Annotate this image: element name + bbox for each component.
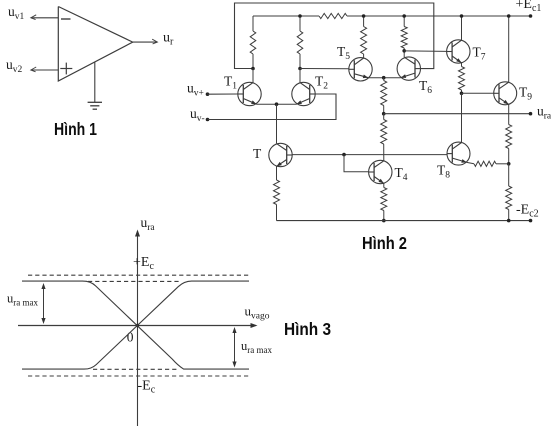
rail dot at R4 (362, 14, 366, 18)
terminal dot uv- (206, 118, 210, 122)
junction dot ura node (382, 112, 386, 116)
rail dot at T7 collector (460, 14, 464, 18)
transistor T8 (447, 142, 470, 165)
wire T2 collector (299, 69, 301, 83)
transistor T current source (269, 143, 292, 166)
+Ec1 rail wire left part (253, 15, 319, 17)
resistor R13 T8 emitter horizontal (467, 162, 474, 163)
wire T9 base (462, 92, 494, 94)
resistor R7 emitters node down to ura node (383, 78, 385, 81)
op-amp U1 triangle (Hinh 1) (58, 7, 132, 82)
curve falling saturating (inverting characteristic) (22, 281, 249, 369)
wire T5 T6 emitters join (368, 77, 400, 79)
transistor T1 (238, 82, 261, 105)
wire T1 collector (252, 69, 254, 83)
rail dot at R5 (402, 14, 406, 18)
terminal dot ura (529, 112, 533, 116)
graph x axis u_vago (18, 325, 256, 327)
rail dot T9 emitter chain (507, 219, 511, 223)
transistor T6 (397, 57, 420, 80)
dashed segment at -saturation between shoulders (93, 368, 179, 370)
wire stub to T4 base (344, 155, 368, 172)
wire T1 T2 emitters join (257, 103, 297, 105)
resistor R6 T7 emitter chain (461, 63, 463, 67)
resistor R1 chain from rail to T1 collector (252, 16, 254, 31)
terminal dot -Ec2 (529, 219, 533, 223)
resistor R9 T emitter to rail (276, 166, 278, 180)
dashed line +Ec level (28, 274, 251, 276)
feedback wire from T1 collector node over top to T6 base (235, 3, 434, 69)
resistor R4 chain from rail to T5 collector (363, 16, 365, 27)
svg-text:+Ec1: +Ec1 (516, 0, 542, 14)
wire input uv2 (31, 69, 58, 71)
junction dot emitters T5 T6 (382, 76, 386, 80)
svg-text:Hình 2: Hình 2 (362, 233, 407, 253)
transistor T7 (447, 40, 470, 63)
svg-text:T: T (253, 146, 262, 161)
rail dot at R2 (298, 14, 302, 18)
wire output ura (384, 113, 531, 115)
node dot T1 collector (251, 67, 255, 71)
resistor R12 down to -Ec2 rail (508, 164, 510, 186)
transistor T9 (494, 82, 517, 105)
junction dot emitters T1 T2 (275, 102, 279, 106)
input arrow uv1 (31, 15, 36, 20)
terminal dot +Ec1 (529, 14, 533, 18)
wire T9 collector to rail (508, 16, 510, 82)
junction dot on T base line (342, 153, 346, 157)
wire input uv+ (208, 93, 238, 95)
transistor T4 (369, 160, 392, 183)
wire input uv- to T2 base (208, 94, 337, 120)
graph y axis u_ra (137, 232, 139, 427)
op-amp inverting input minus sign (61, 18, 71, 20)
wire T7 collector to rail (461, 16, 463, 40)
output arrow ur (152, 39, 157, 44)
terminal dot uv+ (206, 92, 210, 96)
op-amp non-inverting input plus sign (60, 68, 72, 70)
wire T9 emitter upper (508, 104, 510, 124)
resistor R11 T9 emitter upper (506, 125, 512, 149)
wire node down to T8 collector (461, 93, 463, 142)
input arrow uv2 (31, 67, 36, 72)
wire T5 base from T2 collector node (300, 68, 349, 70)
node dot T2 collector (298, 67, 302, 71)
svg-text:Hình 3: Hình 3 (284, 319, 331, 339)
dashed segment at +saturation between shoulders (88, 280, 181, 282)
wire T7 base (404, 50, 447, 53)
double arrow ura max left (43, 285, 45, 323)
curve rising saturating (non-inverting characteristic) (22, 281, 249, 369)
resistor horizontal on +Ec1 rail (319, 13, 347, 18)
rail dot at T9 collector (507, 14, 511, 18)
ground symbol (88, 101, 102, 103)
transistor T5 (349, 58, 372, 81)
node dot T6 collector / T7 base (402, 49, 406, 53)
-Ec2 rail wire (277, 220, 531, 222)
wire output ur (133, 41, 157, 43)
resistor R2 chain from rail to T2 collector (299, 16, 301, 31)
wire input uv1 (31, 17, 58, 19)
x axis arrowhead (251, 323, 258, 328)
dashed line -Ec level (28, 375, 251, 377)
junction dot T4 emitter rail (382, 219, 386, 223)
wire emitters node down to T collector (276, 104, 278, 143)
ground stem wire (94, 62, 96, 102)
transistor T2 (292, 82, 315, 105)
junction dot T7 emitter / T9 base / T8 collector (460, 92, 464, 96)
resistor R8 ura node down to T4 collector (383, 114, 385, 120)
double arrow ura max right (234, 329, 236, 367)
wire T base line to T8 base (292, 154, 447, 156)
resistor R10 T4 emitter to rail (383, 183, 385, 187)
+Ec1 rail wire right part (347, 15, 531, 17)
svg-text:Hình 1: Hình 1 (54, 119, 97, 139)
y axis arrowhead (135, 230, 140, 237)
junction dot T8 emitter resistor (507, 162, 511, 166)
resistor R5 chain from rail to T6 collector (403, 16, 405, 27)
junction dot at graph origin (136, 324, 139, 327)
